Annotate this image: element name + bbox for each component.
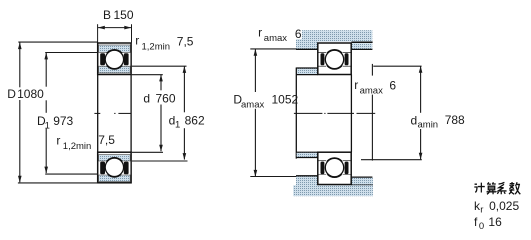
svg-text:788: 788 — [445, 113, 465, 127]
计 — [474, 183, 485, 193]
inner ring shaded band (top) — [99, 66, 131, 73]
label r amax 6 (middle) — [354, 78, 396, 96]
Damax extension lines — [250, 49, 296, 177]
svg-text:6: 6 — [389, 78, 396, 92]
svg-text:1,2min: 1,2min — [63, 141, 92, 152]
svg-text:973: 973 — [53, 114, 73, 128]
heading (CJK glyphs drawn as paths) — [474, 182, 520, 194]
housing left shoulder (top) — [296, 42, 318, 50]
centerline (left drawing) — [94, 112, 131, 114]
race shoulder bars (right top) — [321, 53, 349, 65]
shaft shoulder stub (bottom) — [296, 152, 317, 157]
label d1 862 — [166, 113, 205, 130]
race groove envelope (right bottom) — [324, 157, 345, 178]
dimension Damax: line and arrows — [254, 49, 256, 176]
dimension B: extension lines — [98, 24, 132, 42]
svg-text:amax: amax — [360, 85, 383, 96]
svg-text:r: r — [135, 33, 139, 47]
outer ring shaded band (bottom) — [99, 175, 131, 182]
right bearing bottom section ring boundary lines — [319, 161, 351, 175]
svg-text:150: 150 — [114, 8, 134, 22]
race land strip (right top) — [319, 53, 351, 66]
svg-text:D: D — [7, 87, 16, 101]
svg-text:862: 862 — [185, 113, 205, 127]
svg-text:1080: 1080 — [17, 87, 44, 101]
race shoulder bars (right bottom) — [321, 162, 349, 175]
系 — [497, 182, 506, 194]
ball (right bottom) — [325, 158, 343, 176]
bearing bottom section body — [98, 152, 131, 183]
svg-text:d: d — [411, 113, 418, 127]
label damin 788 — [411, 113, 466, 130]
race land strip (left bottom) — [99, 161, 131, 174]
housing left shoulder (bottom) — [296, 176, 318, 186]
race land strip (left top) — [99, 53, 131, 66]
inner ring shaded band (bottom) — [99, 155, 131, 161]
race land strip (right bottom) — [319, 161, 351, 174]
bore cylinder edges — [98, 75, 131, 153]
d extension lines — [132, 75, 163, 153]
svg-text:0,025: 0,025 — [489, 199, 519, 213]
label r1,2min 7,5 (bottom) — [56, 133, 115, 152]
svg-text:0: 0 — [479, 221, 484, 232]
svg-text:B: B — [103, 8, 111, 22]
shaft shoulder stub (top) — [296, 68, 317, 75]
svg-text:16: 16 — [488, 215, 502, 229]
svg-text:d: d — [143, 92, 150, 106]
label D 1080 — [7, 87, 44, 101]
svg-text:6: 6 — [295, 27, 302, 41]
svg-text:1: 1 — [45, 120, 50, 131]
race shoulder bars (left bottom) — [100, 162, 128, 175]
svg-text:r: r — [354, 78, 358, 92]
right bearing bottom section body — [318, 152, 351, 184]
inner extension vertical (damin) — [371, 64, 373, 161]
svg-text:amax: amax — [241, 100, 264, 111]
shaft left section edge — [295, 68, 297, 159]
svg-text:760: 760 — [156, 92, 176, 106]
svg-text:r: r — [56, 133, 60, 147]
housing right shoulder (bottom) — [351, 177, 373, 185]
label Damax 1052 — [233, 92, 298, 110]
label D1 973 — [37, 114, 74, 131]
D1 extension lines — [45, 53, 97, 175]
数 — [509, 182, 520, 194]
shaft end face edge — [350, 75, 352, 153]
ball (left top) — [105, 50, 123, 68]
label B 150 — [103, 8, 134, 22]
dimension D1: line and arrows — [45, 53, 47, 173]
D extension lines — [18, 42, 98, 183]
dimension D: line and arrows — [19, 43, 21, 183]
svg-text:7,5: 7,5 — [177, 34, 194, 48]
dimension d: line and arrows — [160, 75, 162, 151]
outer ring shaded band (top) — [99, 45, 131, 52]
svg-text:amax: amax — [264, 33, 287, 44]
dimension damin: line and arrows — [420, 66, 422, 159]
race groove envelope (bottom) — [104, 157, 125, 178]
centerline (right drawing) — [294, 112, 375, 114]
damin extension lines — [361, 66, 422, 160]
race groove envelope (right top) — [324, 49, 345, 70]
label r amax 6 (top) — [258, 25, 302, 44]
right bearing top section body — [318, 43, 351, 75]
svg-text:7,5: 7,5 — [98, 133, 115, 147]
label f0 16 — [474, 215, 502, 232]
label d 760 — [143, 92, 175, 106]
svg-text:r: r — [258, 25, 262, 39]
label kr 0,025 — [474, 199, 519, 216]
svg-text:1,2min: 1,2min — [142, 41, 171, 52]
算 — [487, 182, 497, 194]
dimension d1: line and arrows — [183, 66, 185, 159]
d1 extension lines — [132, 66, 188, 161]
bearing top section body — [98, 43, 131, 75]
dimension B: arrows — [98, 26, 132, 30]
race groove envelope (top) — [104, 49, 125, 70]
svg-text:1: 1 — [175, 119, 180, 130]
ball (right top) — [325, 50, 343, 68]
housing bottom band — [293, 185, 373, 196]
housing top band — [296, 30, 372, 42]
ball (left bottom) — [105, 158, 123, 176]
right bearing top section ring boundary lines — [319, 52, 351, 66]
svg-text:1052: 1052 — [272, 92, 299, 106]
svg-text:amin: amin — [418, 120, 439, 131]
race shoulder bars (left top) — [100, 53, 128, 65]
svg-text:r: r — [480, 204, 483, 215]
housing right shoulder (top) — [351, 42, 372, 49]
label r1,2min 7,5 (top) — [135, 33, 194, 52]
